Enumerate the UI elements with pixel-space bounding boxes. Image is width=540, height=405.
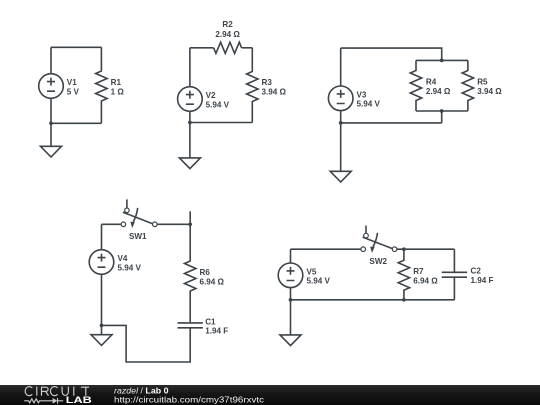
- voltage source V4: [89, 250, 114, 275]
- wire to ground circuit 1: [50, 123, 52, 146]
- svg-text:2.94 Ω: 2.94 Ω: [215, 30, 240, 39]
- svg-text:5.94 V: 5.94 V: [357, 100, 381, 109]
- wire bottom of circuit 3: [341, 122, 442, 124]
- wire C1 bottom loop: [102, 325, 191, 362]
- resistor R2: [214, 42, 242, 53]
- svg-text:3.94 Ω: 3.94 Ω: [477, 87, 502, 96]
- voltage source V5: [278, 263, 303, 288]
- svg-text:LAB: LAB: [66, 395, 93, 405]
- resistor R1: [96, 47, 107, 123]
- wire bottom bracket parallel R4 R5: [416, 110, 468, 112]
- svg-text:C2: C2: [471, 267, 482, 276]
- node junction circuit 2: [188, 121, 192, 125]
- wire top bracket parallel R4 R5: [416, 59, 468, 61]
- svg-text:3.94 Ω: 3.94 Ω: [262, 88, 287, 97]
- wire C2 leads: [453, 249, 455, 300]
- logo resistor-diode glyph: [24, 398, 63, 404]
- wire bottom of circuit 2: [190, 122, 252, 124]
- node junction R7 bottom: [402, 298, 406, 302]
- svg-text:C1: C1: [205, 317, 216, 326]
- svg-text:R5: R5: [477, 78, 488, 87]
- wire leads of V2: [189, 48, 191, 123]
- wire V4 bottom: [101, 274, 103, 325]
- node junction circuit 3: [339, 121, 343, 125]
- svg-text:R3: R3: [262, 78, 273, 87]
- resistor R5: [462, 60, 473, 111]
- svg-text:R2: R2: [222, 20, 233, 29]
- wire bottom of circuit 1: [51, 122, 101, 124]
- logo CIRCUIT letters: [25, 387, 89, 396]
- switch SW2: [361, 226, 397, 254]
- resistor R3: [247, 48, 258, 123]
- wire V5 to switch: [291, 249, 361, 263]
- wire top of circuit 1: [51, 46, 101, 48]
- svg-text:V3: V3: [357, 90, 367, 99]
- voltage source V2: [178, 87, 203, 112]
- wire top of circuit 3: [341, 48, 442, 60]
- wire to ground circuit 4: [101, 325, 103, 334]
- node top of parallel combo: [440, 59, 444, 63]
- svg-text:5 V: 5 V: [67, 87, 80, 96]
- svg-text:R7: R7: [413, 267, 424, 276]
- resistor R7: [398, 249, 409, 300]
- svg-text:6.94 Ω: 6.94 Ω: [413, 277, 438, 286]
- svg-text:V1: V1: [67, 78, 77, 87]
- svg-text:V2: V2: [206, 91, 216, 100]
- svg-text:1 Ω: 1 Ω: [111, 87, 125, 96]
- wire top-right of circuit 2: [242, 47, 253, 49]
- svg-text:5.94 V: 5.94 V: [206, 100, 230, 109]
- wire to ground circuit 5: [290, 300, 292, 335]
- wire leads of V3: [340, 48, 342, 123]
- wire V5 bottom: [290, 288, 292, 300]
- ground circuit 1: [41, 146, 62, 157]
- capacitor C1: [178, 323, 203, 328]
- svg-text:http://circuitlab.com/cmy37t96: http://circuitlab.com/cmy37t96rxvtc: [114, 394, 265, 404]
- wire bottom of circuit 5: [291, 299, 455, 301]
- resistor R6: [185, 224, 196, 322]
- node bottom of parallel combo: [440, 109, 444, 113]
- ground circuit 4: [91, 335, 112, 346]
- voltage source V3: [328, 86, 353, 111]
- svg-text:5.94 V: 5.94 V: [118, 263, 142, 272]
- svg-text:SW2: SW2: [369, 257, 387, 266]
- ground circuit 3: [330, 171, 351, 182]
- switch SW1: [121, 199, 157, 228]
- ground circuit 5: [280, 335, 301, 346]
- node junction V5 bottom: [289, 298, 293, 302]
- resistor R4: [410, 60, 421, 111]
- wire left leads of V1: [50, 47, 52, 123]
- node above R7: [402, 247, 406, 251]
- svg-text:R1: R1: [111, 78, 122, 87]
- svg-text:1.94 F: 1.94 F: [471, 276, 494, 285]
- wire switch to C2 top: [397, 248, 454, 250]
- footer bar: [0, 385, 540, 405]
- svg-text:R4: R4: [426, 78, 437, 87]
- voltage source V1: [39, 74, 64, 99]
- svg-text:5.94 V: 5.94 V: [307, 277, 331, 286]
- wire top-left of circuit 2: [190, 47, 214, 49]
- capacitor C2: [442, 272, 467, 277]
- ground circuit 2: [179, 158, 200, 169]
- node right of SW1: [188, 222, 192, 226]
- svg-text:2.94 Ω: 2.94 Ω: [426, 87, 451, 96]
- wire to ground circuit 2: [189, 123, 191, 158]
- svg-text:V4: V4: [118, 254, 128, 263]
- svg-text:V5: V5: [307, 267, 317, 276]
- node junction circuit 1: [49, 121, 53, 125]
- wire V4 to switch: [102, 224, 122, 249]
- wire stub above node circuit 4: [189, 211, 191, 224]
- svg-text:6.94 Ω: 6.94 Ω: [200, 277, 225, 286]
- wire switch to node circuit 4: [157, 223, 190, 225]
- svg-text:1.94 F: 1.94 F: [205, 327, 228, 336]
- wire from parallel combo down: [441, 111, 443, 123]
- svg-text:SW1: SW1: [129, 232, 147, 241]
- wire to ground circuit 3: [340, 123, 342, 171]
- node junction circuit 4: [100, 324, 104, 328]
- svg-text:R6: R6: [200, 268, 211, 277]
